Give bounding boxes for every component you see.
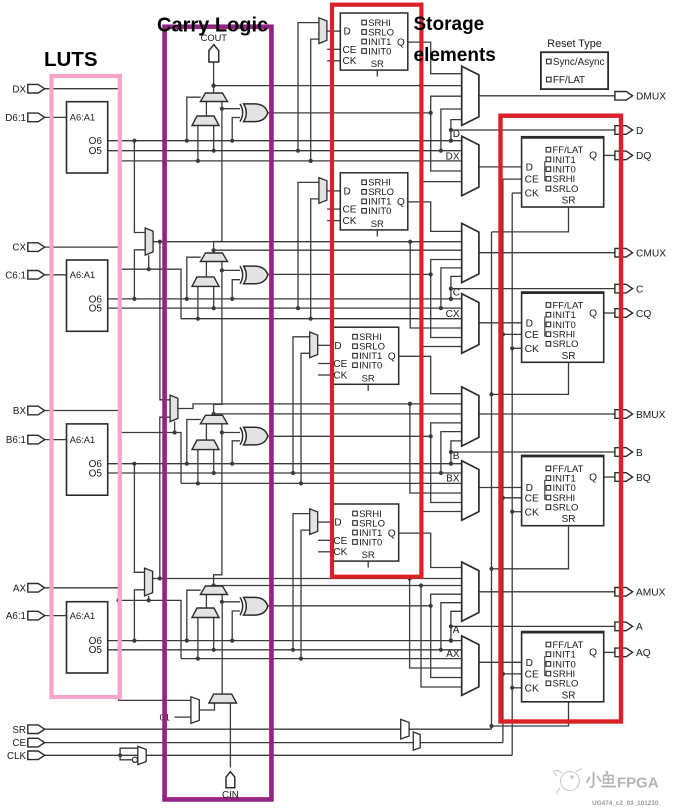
svg-text:CE: CE bbox=[333, 359, 347, 370]
wire DI mux D right leg from O5 bbox=[213, 126, 215, 151]
svg-text:B: B bbox=[453, 451, 460, 462]
carry mux MUXCY B bbox=[200, 415, 227, 424]
wire O6-C branch up to F7BMUX input bbox=[134, 250, 145, 299]
svg-text:C: C bbox=[453, 287, 460, 298]
AFFMUX flip-flop input multiplexer bbox=[462, 636, 479, 696]
wire CX input net bbox=[45, 247, 181, 319]
svg-text:A: A bbox=[636, 622, 643, 633]
output port C bbox=[615, 284, 633, 293]
wire CK stub AFF bbox=[510, 686, 521, 690]
svg-text:CK: CK bbox=[525, 683, 539, 694]
highlight box LUTS (pink) bbox=[52, 76, 120, 697]
wire DI mux B output to MUXCY bbox=[205, 424, 207, 440]
svg-text:CK: CK bbox=[525, 189, 539, 200]
wire carry chain segment row A to row B bbox=[214, 424, 224, 586]
svg-text:D: D bbox=[526, 318, 533, 329]
wire SR stub C5FF bbox=[376, 230, 378, 237]
D5FF D-input mux bbox=[319, 18, 327, 44]
wire SR connection CFF bbox=[489, 362, 568, 396]
wire D5FF mux output to D pin bbox=[327, 30, 340, 32]
svg-text:D: D bbox=[453, 129, 460, 140]
wire CLK input line bbox=[45, 193, 513, 760]
svg-text:SRLO: SRLO bbox=[553, 184, 579, 195]
wire BFF Q to BQ output bbox=[604, 476, 615, 478]
output port AMUX bbox=[615, 588, 633, 597]
wire carry-out tap row D bbox=[212, 84, 462, 88]
svg-text:Q: Q bbox=[397, 197, 405, 208]
wire A6:1 input to LUT bbox=[45, 615, 67, 617]
svg-text:AX: AX bbox=[13, 583, 27, 594]
wire XOR B input from O6 bbox=[232, 441, 240, 464]
wire XOR output row D bbox=[268, 96, 462, 171]
wire wide-mux output into row C muxes bbox=[408, 240, 461, 328]
wire CE stub C5FF bbox=[327, 208, 340, 210]
storage element CFF (FF/LAT) bbox=[522, 292, 604, 362]
svg-text:CMUX: CMUX bbox=[636, 249, 666, 260]
wide mux F7BMUX bbox=[145, 228, 153, 255]
svg-text:DX: DX bbox=[446, 152, 460, 163]
wire MUXCY D select from O6 bbox=[187, 97, 201, 141]
svg-text:LUTS: LUTS bbox=[44, 48, 98, 71]
wire O6 net row B bbox=[108, 462, 462, 466]
wire DMUX output bbox=[479, 95, 615, 97]
wire O5 riser to BOUTMUX bbox=[441, 432, 462, 473]
svg-text:CX: CX bbox=[446, 309, 460, 320]
wire SR connection AFF bbox=[489, 702, 568, 728]
wire CK stub A5FF bbox=[318, 551, 331, 553]
wire DI mux D output to MUXCY bbox=[205, 102, 207, 117]
input port DX bbox=[28, 84, 45, 93]
wire MUXCY B select from O6 bbox=[187, 420, 201, 464]
wire B6:1 input to LUT bbox=[45, 439, 67, 441]
output port AQ bbox=[615, 648, 633, 657]
wire wide-mux output into row A muxes bbox=[408, 576, 462, 668]
carry XOR gate B bbox=[240, 427, 243, 445]
svg-text:A6:A1: A6:A1 bbox=[70, 270, 95, 280]
input port A6:1 bbox=[28, 611, 45, 620]
output port CQ bbox=[615, 309, 633, 318]
wire O5 net row C bbox=[108, 306, 462, 310]
wire XOR D input from carry bbox=[222, 108, 240, 110]
input port AX bbox=[28, 584, 45, 593]
carry DI mux A bbox=[192, 608, 219, 618]
output port A bbox=[615, 622, 633, 631]
wire O5 riser to A5FF mux bbox=[293, 514, 310, 650]
AOUTMUX output multiplexer bbox=[462, 562, 479, 621]
svg-text:UG474_c2_03_101210: UG474_c2_03_101210 bbox=[592, 800, 659, 807]
wire O6 net row D bbox=[108, 139, 462, 143]
wire MUXCY A select from O6 bbox=[187, 590, 201, 640]
wire O5 riser to C5FF mux bbox=[298, 182, 319, 308]
svg-text:C6:1: C6:1 bbox=[5, 270, 26, 281]
carry DI mux D bbox=[192, 116, 219, 126]
wire DFFMUX output to DFF D pin bbox=[479, 166, 522, 168]
wire 01 constant stub bbox=[175, 716, 191, 718]
svg-text:BX: BX bbox=[446, 474, 460, 485]
wire O5 riser to DOUTMUX bbox=[441, 109, 462, 151]
wide mux F7AMUX bbox=[145, 568, 153, 596]
svg-text:INIT0: INIT0 bbox=[359, 361, 382, 372]
port CIN bbox=[226, 772, 235, 788]
wire DX riser to D5FF mux bbox=[311, 39, 319, 161]
wire F8MUX output net bbox=[178, 402, 462, 409]
svg-text:Q: Q bbox=[388, 352, 396, 363]
wire SR input line bbox=[45, 232, 492, 729]
svg-text:Q: Q bbox=[589, 648, 597, 659]
wire XOR D input from O6 bbox=[232, 118, 240, 141]
wire CE stub AFF bbox=[501, 672, 522, 676]
input port C6:1 bbox=[28, 271, 45, 280]
carry DI mux B bbox=[192, 440, 219, 450]
svg-text:elements: elements bbox=[414, 45, 496, 66]
wire O6 riser and C output net bbox=[449, 276, 615, 301]
output port D bbox=[615, 126, 633, 135]
wire XOR A input from O6 bbox=[232, 611, 240, 641]
wire AX select stub to F7AMUX bbox=[147, 596, 151, 603]
CYINIT select vmux bbox=[191, 697, 199, 724]
svg-text:D: D bbox=[526, 658, 533, 669]
svg-text:INIT0: INIT0 bbox=[368, 46, 391, 57]
buffer on SR line bbox=[401, 719, 409, 739]
wire SR stub D5FF bbox=[376, 70, 378, 77]
svg-text:O5: O5 bbox=[89, 468, 103, 479]
svg-text:DMUX: DMUX bbox=[636, 92, 666, 103]
wire O6-A branch up to F7AMUX input bbox=[134, 590, 144, 641]
wire DI mux C left leg from CX bbox=[197, 286, 199, 318]
storage element B5FF bbox=[331, 327, 399, 384]
svg-text:FPGA: FPGA bbox=[617, 775, 659, 792]
svg-text:B6:1: B6:1 bbox=[6, 435, 26, 446]
storage element AFF (FF/LAT) bbox=[522, 632, 604, 702]
wire CE stub BFF bbox=[501, 496, 522, 500]
svg-text:BMUX: BMUX bbox=[636, 410, 666, 421]
storage element BFF (FF/LAT) bbox=[522, 455, 604, 525]
carry mux MUXCY C bbox=[200, 253, 227, 262]
wire CYINIT output to carry chain bbox=[221, 693, 223, 695]
CFFMUX flip-flop input multiplexer bbox=[462, 294, 479, 354]
clock inversion mux bbox=[132, 746, 146, 764]
input port CX bbox=[28, 243, 45, 252]
wire DFF Q to DQ output bbox=[604, 154, 615, 156]
carry XOR gate A bbox=[240, 597, 243, 615]
wire O6-D branch down to F7BMUX input bbox=[134, 141, 145, 233]
output port B bbox=[615, 448, 633, 457]
svg-text:Sync/Async: Sync/Async bbox=[553, 57, 605, 68]
input port CLK bbox=[28, 751, 45, 760]
svg-text:A: A bbox=[453, 625, 460, 636]
wire D6:1 input to LUT bbox=[45, 116, 67, 118]
input port B6:1 bbox=[28, 435, 45, 444]
wire carry chain CIN segment to row A bbox=[220, 595, 224, 695]
highlight box output storage elements (red) bbox=[501, 116, 622, 722]
wire MUXCY C select from O6 bbox=[187, 257, 201, 299]
A5FF D-input mux bbox=[310, 509, 318, 535]
svg-text:CE: CE bbox=[343, 45, 357, 56]
wire SR stub B5FF bbox=[367, 384, 369, 391]
storage element DFF (FF/LAT) bbox=[522, 137, 604, 207]
wire DX bypass net bbox=[119, 159, 461, 163]
highlight box storage elements column (red) bbox=[332, 5, 421, 577]
svg-text:SR: SR bbox=[371, 219, 384, 230]
wire O5 riser to AOUTMUX bbox=[441, 603, 462, 650]
wire CE stub B5FF bbox=[318, 363, 331, 365]
wire DX input net bbox=[45, 89, 120, 161]
wire carry chain segment row C to row D bbox=[214, 102, 224, 254]
BOUTMUX output multiplexer bbox=[462, 387, 479, 446]
svg-text:SRLO: SRLO bbox=[553, 503, 579, 514]
wire carry chain segment row B to row C bbox=[214, 262, 224, 416]
wire Q output of A5FF to AOUTMUX bbox=[399, 533, 462, 567]
svg-text:BQ: BQ bbox=[636, 473, 651, 484]
svg-text:A6:1: A6:1 bbox=[6, 611, 26, 622]
svg-text:AQ: AQ bbox=[636, 648, 651, 659]
svg-text:O5: O5 bbox=[89, 304, 103, 315]
svg-text:SR: SR bbox=[562, 351, 576, 362]
wire AMUX output bbox=[479, 591, 615, 593]
wire carry-out tap row A bbox=[212, 583, 462, 587]
wire O5 riser to B5FF mux bbox=[293, 337, 310, 473]
svg-text:CK: CK bbox=[525, 344, 539, 355]
wire O5 net row B bbox=[108, 471, 462, 475]
svg-text:SR: SR bbox=[362, 373, 375, 384]
LUT D (A6:A1) bbox=[67, 102, 108, 173]
storage element A5FF bbox=[331, 504, 399, 561]
input port SR bbox=[28, 725, 45, 734]
svg-text:SR: SR bbox=[362, 550, 375, 561]
wire DI mux A right leg from O5 bbox=[213, 618, 215, 650]
wide mux F8MUX bbox=[170, 395, 178, 422]
wire C5FF mux output to D pin bbox=[327, 190, 340, 192]
svg-text:INIT0: INIT0 bbox=[359, 537, 382, 548]
wire A5FF mux output to D pin bbox=[318, 521, 332, 523]
svg-text:DQ: DQ bbox=[636, 151, 651, 162]
wire O6 net row C bbox=[108, 297, 462, 301]
wire CK stub BFF bbox=[510, 510, 521, 514]
svg-text:SR: SR bbox=[371, 59, 384, 70]
svg-text:BX: BX bbox=[13, 406, 27, 417]
svg-text:D: D bbox=[344, 186, 351, 197]
svg-text:B: B bbox=[636, 448, 643, 459]
svg-text:Q: Q bbox=[388, 528, 396, 539]
svg-text:CK: CK bbox=[525, 507, 539, 518]
svg-text:CLK: CLK bbox=[7, 751, 27, 762]
svg-text:CE: CE bbox=[343, 205, 357, 216]
svg-text:AMUX: AMUX bbox=[636, 588, 666, 599]
wire B5FF mux output to D pin bbox=[318, 344, 332, 346]
svg-text:Q: Q bbox=[589, 308, 597, 319]
svg-text:SR: SR bbox=[562, 196, 576, 207]
wire AFF Q to AQ output bbox=[604, 651, 615, 653]
wire DI mux D left leg from DX bbox=[197, 126, 199, 161]
svg-text:DX: DX bbox=[12, 84, 26, 95]
svg-text:Q: Q bbox=[397, 37, 405, 48]
label Storage elements bbox=[414, 14, 496, 66]
svg-text:C: C bbox=[636, 284, 643, 295]
wire CFFMUX output to CFF D pin bbox=[479, 322, 522, 324]
wire Q output of B5FF to BOUTMUX bbox=[399, 356, 462, 393]
wire O5 riser to D5FF mux bbox=[298, 23, 319, 151]
svg-text:AX: AX bbox=[446, 649, 460, 660]
wire CE stub CFF bbox=[501, 332, 522, 336]
input port BX bbox=[28, 406, 45, 415]
svg-text:Carry Logic: Carry Logic bbox=[157, 15, 268, 37]
carry mux MUXCY A bbox=[200, 586, 227, 595]
LUT A (A6:A1) bbox=[67, 602, 108, 673]
svg-text:A6:A1: A6:A1 bbox=[70, 611, 95, 621]
svg-text:D: D bbox=[344, 27, 351, 38]
svg-text:CE: CE bbox=[525, 670, 539, 681]
wire O5 net row A bbox=[108, 648, 462, 652]
svg-text:D: D bbox=[334, 341, 341, 352]
BFFMUX flip-flop input multiplexer bbox=[462, 461, 479, 521]
wire CK stub D5FF bbox=[327, 60, 340, 62]
LUT B (A6:A1) bbox=[67, 424, 108, 495]
svg-text:Q: Q bbox=[589, 151, 597, 162]
wire carry-out tap row B bbox=[212, 412, 462, 416]
svg-text:CQ: CQ bbox=[636, 309, 651, 320]
output port DMUX bbox=[615, 92, 633, 101]
wire wide-mux output into row B muxes bbox=[408, 402, 462, 493]
wire XOR output row A bbox=[268, 594, 462, 677]
wire CK stub B5FF bbox=[318, 374, 331, 376]
wire CX bypass net bbox=[181, 317, 462, 321]
wire BX riser to B5FF mux bbox=[301, 353, 310, 483]
wire BX select stub to F8MUX bbox=[173, 422, 177, 435]
wire XOR output row B bbox=[268, 423, 462, 503]
output port DQ bbox=[615, 151, 633, 160]
wire CY riser to CFFMUX bbox=[421, 250, 462, 346]
wire O6 riser and B output net bbox=[449, 441, 615, 466]
svg-text:Reset Type: Reset Type bbox=[547, 38, 601, 50]
svg-text:CK: CK bbox=[333, 547, 347, 558]
wire O6 net row A bbox=[108, 639, 462, 643]
svg-text:CK: CK bbox=[343, 216, 357, 227]
wire CE stub DFF bbox=[503, 178, 522, 180]
svg-text:CK: CK bbox=[333, 370, 347, 381]
wire CE stub D5FF bbox=[327, 48, 340, 50]
wire XOR A input from carry bbox=[222, 601, 240, 603]
svg-text:A6:A1: A6:A1 bbox=[70, 113, 95, 123]
wire O5 net row D bbox=[108, 149, 462, 153]
wire CK stub C5FF bbox=[327, 220, 340, 222]
svg-text:D: D bbox=[636, 126, 643, 137]
wire carry chain COUT segment with tap junction bbox=[212, 62, 216, 93]
carry CYINIT mux bbox=[209, 694, 237, 703]
wire Q output of D5FF to DOUTMUX bbox=[408, 42, 462, 74]
wire CX select stub to F7BMUX bbox=[147, 255, 151, 271]
carry XOR gate C bbox=[240, 266, 243, 284]
wire CE input line bbox=[45, 179, 503, 743]
storage element D5FF bbox=[340, 13, 408, 70]
wire BMUX output bbox=[479, 413, 615, 415]
wire O6 riser and D output net bbox=[449, 120, 615, 143]
carry DI mux C bbox=[192, 277, 219, 287]
wire F7AMUX output net bbox=[153, 417, 462, 580]
svg-text:CE: CE bbox=[525, 175, 539, 186]
wire CK stub DFF bbox=[512, 192, 521, 194]
svg-text:SRLO: SRLO bbox=[553, 679, 579, 690]
wire SR connection BFF bbox=[489, 526, 568, 571]
buffer on CE line bbox=[413, 732, 420, 750]
wire XOR output row C bbox=[268, 260, 462, 338]
wire O5 riser to COUTMUX bbox=[441, 268, 462, 308]
svg-text:SR: SR bbox=[562, 514, 576, 525]
wire O6-B branch down to F7AMUX input bbox=[134, 464, 144, 573]
svg-text:D: D bbox=[334, 518, 341, 529]
wire XOR C input from carry bbox=[222, 269, 240, 271]
svg-text:O5: O5 bbox=[89, 645, 103, 656]
svg-text:CE: CE bbox=[333, 536, 347, 547]
svg-text:FF/LAT: FF/LAT bbox=[553, 75, 585, 86]
watermark fish logo bbox=[554, 769, 582, 794]
svg-text:CE: CE bbox=[525, 493, 539, 504]
wire CX riser to C5FF mux bbox=[311, 199, 319, 319]
svg-text:INIT0: INIT0 bbox=[368, 206, 391, 217]
wire CYINIT vmux output bbox=[199, 703, 214, 710]
svg-text:SR: SR bbox=[562, 690, 576, 701]
COUTMUX output multiplexer bbox=[462, 223, 479, 282]
svg-text:D: D bbox=[526, 163, 533, 174]
wire AX input net bbox=[45, 588, 191, 701]
wire DI mux A left leg from AX bbox=[197, 618, 199, 659]
wire AFFMUX output to AFF D pin bbox=[479, 661, 522, 663]
wire XOR C input from O6 bbox=[232, 280, 240, 299]
highlight box Carry Logic (purple) bbox=[165, 27, 272, 800]
svg-text:D6:1: D6:1 bbox=[5, 113, 26, 124]
C5FF D-input mux bbox=[319, 178, 327, 204]
watermark text bbox=[587, 772, 615, 788]
svg-text:O5: O5 bbox=[89, 146, 103, 157]
wire carry-out tap row C bbox=[212, 248, 462, 252]
legend Reset Type box bbox=[541, 38, 608, 89]
DOUTMUX output multiplexer bbox=[462, 66, 479, 125]
wire DI mux C right leg from O5 bbox=[213, 286, 215, 308]
svg-text:Storage: Storage bbox=[414, 14, 485, 35]
wire O6 riser and A output net bbox=[449, 611, 615, 642]
wire SR stub A5FF bbox=[367, 561, 369, 568]
output port CMUX bbox=[615, 248, 633, 257]
wire BX input net bbox=[45, 411, 181, 484]
B5FF D-input mux bbox=[310, 332, 318, 358]
wire AX bypass net bbox=[181, 657, 462, 661]
wire CY riser to DFFMUX bbox=[421, 86, 462, 182]
wire CY riser to BFFMUX bbox=[421, 414, 462, 512]
input port CE bbox=[28, 738, 45, 747]
wire DI mux A output to MUXCY bbox=[205, 595, 207, 609]
input port D6:1 bbox=[28, 113, 45, 122]
wire XOR B input from carry bbox=[222, 432, 240, 434]
storage element C5FF bbox=[340, 173, 408, 230]
carry mux MUXCY D bbox=[200, 93, 227, 102]
wire BX bypass net bbox=[181, 481, 462, 485]
wire AX riser to A5FF mux bbox=[301, 530, 310, 659]
output port BMUX bbox=[615, 410, 633, 419]
wire F7BMUX output net bbox=[153, 240, 462, 400]
wire C6:1 input to LUT bbox=[45, 274, 67, 276]
svg-text:A6:A1: A6:A1 bbox=[70, 435, 95, 445]
wire CY riser to AFFMUX bbox=[421, 586, 462, 688]
port COUT bbox=[201, 33, 228, 62]
carry XOR gate D bbox=[240, 104, 243, 122]
wire CMUX output bbox=[479, 252, 615, 254]
wire CFF Q to CQ output bbox=[604, 312, 615, 314]
svg-text:CK: CK bbox=[343, 56, 357, 67]
wire DI mux B right leg from O5 bbox=[213, 450, 215, 473]
wire CK stub CFF bbox=[510, 346, 521, 350]
svg-text:CIN: CIN bbox=[222, 790, 239, 801]
wire SR connection DFF bbox=[492, 207, 569, 232]
output port BQ bbox=[615, 473, 633, 482]
